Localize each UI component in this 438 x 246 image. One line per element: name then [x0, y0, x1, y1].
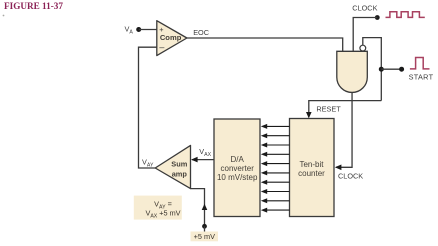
- stray caption dot: [3, 15, 5, 17]
- svg-text:Ten-bit: Ten-bit: [299, 160, 324, 169]
- arrowhead into counter right edge: [335, 165, 342, 171]
- START terminal dot: [399, 67, 404, 72]
- sum amp U2: [155, 145, 190, 188]
- wire START net: up to bubble: [363, 38, 382, 101]
- clock waveform: [386, 12, 425, 18]
- wire feedback: comparator - input, left and down to sum amp output: [139, 47, 157, 168]
- start pulse waveform: [410, 58, 430, 69]
- svg-text:10 mV/step: 10 mV/step: [217, 173, 258, 182]
- wire CLOCK to gate middle input: [353, 18, 377, 52]
- CLOCK terminal dot: [375, 15, 380, 20]
- D/A converter box: [214, 119, 260, 217]
- comparator U1 (Comp): [157, 21, 187, 56]
- wire gate output to counter clock input: [336, 93, 352, 168]
- svg-text:CLOCK: CLOCK: [352, 4, 377, 13]
- wire dot to +5mV box: [204, 226, 206, 231]
- node VA dot: [136, 27, 141, 32]
- +5mV node dot: [202, 224, 207, 229]
- up arrowhead on +5mV wire: [202, 204, 208, 210]
- svg-text:START: START: [409, 72, 434, 81]
- svg-text:EOC: EOC: [193, 28, 209, 37]
- wire +5mV source to sum amp bottom input: [191, 189, 205, 226]
- svg-text:converter: converter: [221, 164, 255, 173]
- inverting bubble on gate input: [360, 45, 366, 51]
- svg-text:RESET: RESET: [316, 105, 341, 114]
- arrowhead into sum amp: [191, 157, 198, 163]
- svg-text:FIGURE 11-37: FIGURE 11-37: [4, 1, 63, 11]
- wire EOC: comparator output to gate top-left input: [187, 38, 343, 51]
- svg-text:Comp: Comp: [160, 33, 182, 42]
- wire VAX: D/A output to sum amp input: [192, 159, 214, 161]
- START junction dot: [379, 67, 384, 72]
- svg-text:–: –: [159, 42, 164, 52]
- wire VA to comparator + input: [139, 29, 157, 31]
- note box VAY = VAX + 5mV: [134, 196, 182, 220]
- AND gate G1: [337, 51, 368, 92]
- wire RESET: to counter top: [309, 101, 382, 117]
- wire junction to START terminal: [381, 68, 401, 70]
- svg-text:D/A: D/A: [231, 155, 245, 164]
- svg-text:+5 mV: +5 mV: [194, 232, 215, 241]
- data bus: ten arrows counter to D/A: [261, 124, 290, 213]
- svg-text:amp: amp: [172, 169, 188, 178]
- svg-text:counter: counter: [298, 169, 325, 178]
- svg-text:Sum: Sum: [171, 160, 187, 169]
- +5 mV source box: [191, 232, 219, 242]
- ten-bit counter box: [290, 119, 335, 217]
- arrowhead into counter top: [306, 112, 312, 118]
- svg-text:CLOCK: CLOCK: [338, 171, 363, 180]
